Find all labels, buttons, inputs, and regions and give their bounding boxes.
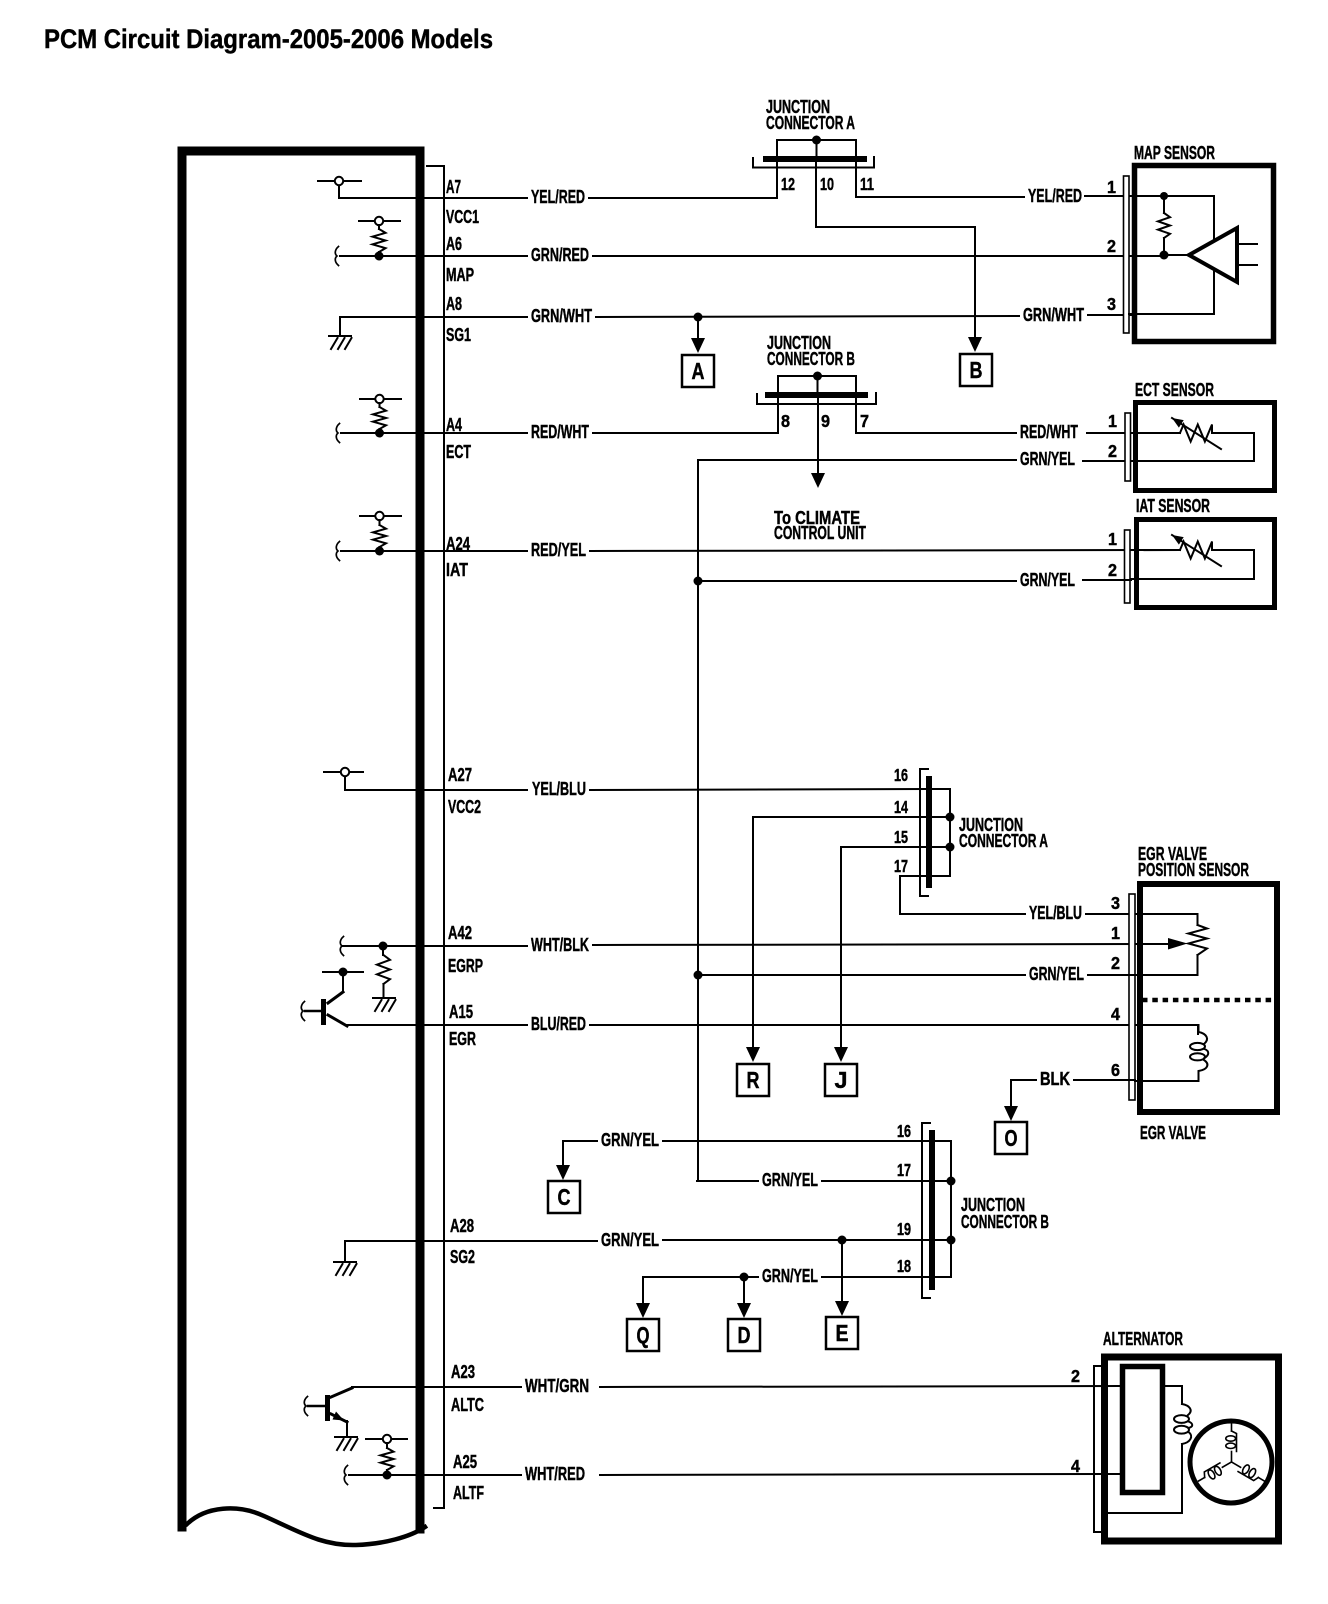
connector box E	[826, 1317, 858, 1349]
connector box B	[960, 354, 992, 386]
svg-text:6: 6	[1111, 1060, 1120, 1080]
wire A6 GRN/RED left segment	[340, 255, 527, 257]
MAP sensor internal node wire to amplifier	[1164, 254, 1189, 256]
svg-text:4: 4	[1071, 1456, 1080, 1476]
alternator stator circle	[1190, 1421, 1272, 1503]
pin 11 stub	[855, 162, 857, 197]
GRN/YEL vertical bus wire	[697, 460, 699, 1181]
junction dot on A4 wire	[375, 429, 384, 438]
bus junction dot pin 19 (bottom B)	[947, 1236, 956, 1245]
svg-text:GRN/YEL: GRN/YEL	[601, 1230, 659, 1250]
alternator voltage regulator box	[1123, 1367, 1163, 1493]
break mark at A4 wire start	[336, 424, 339, 443]
PCM torn bottom wavy edge	[187, 1508, 425, 1545]
wire A8 GRN/WHT left segment	[340, 316, 527, 318]
svg-text:CONTROL UNIT: CONTROL UNIT	[774, 523, 866, 543]
break mark at A25 wire start	[344, 1466, 347, 1485]
wire A42 WHT/BLK to EGR valve position sensor pin 1	[593, 944, 1170, 945]
svg-text:MAP: MAP	[446, 265, 474, 285]
wire E arrow vertical	[841, 1240, 843, 1301]
svg-text:MAP SENSOR: MAP SENSOR	[1134, 143, 1215, 163]
svg-text:A28: A28	[450, 1216, 474, 1236]
svg-text:3: 3	[1111, 893, 1120, 913]
svg-text:7: 7	[860, 411, 869, 431]
ECT sensor thermistor element	[1131, 432, 1180, 434]
ground symbol at A8 (sensor ground 1)	[339, 317, 341, 334]
junction connector B top loop wire	[778, 376, 856, 393]
wire A6 GRN/RED to MAP sensor pin 2	[593, 255, 1164, 257]
svg-text:CONNECTOR B: CONNECTOR B	[961, 1212, 1049, 1232]
wire A42 WHT/BLK left segment	[343, 945, 527, 947]
svg-text:GRN/YEL: GRN/YEL	[601, 1130, 659, 1150]
EGR position sensor potentiometer	[1188, 925, 1207, 955]
svg-text:EGR VALVE: EGR VALVE	[1140, 1123, 1206, 1143]
svg-text:E: E	[836, 1320, 849, 1346]
junction dot on A25 wire	[383, 1471, 392, 1480]
svg-text:R: R	[747, 1067, 760, 1093]
junction dot on A42 wire	[379, 942, 388, 951]
svg-text:2: 2	[1108, 441, 1117, 461]
svg-text:RED/YEL: RED/YEL	[531, 540, 586, 560]
wire GRN/YEL bus to EGR sensor pin 2	[698, 974, 1025, 976]
wire GRN/YEL ECT sensor pin 2 to bus	[698, 459, 1016, 461]
ground symbol at Q2 emitter	[335, 1436, 357, 1438]
junction connector A bar	[763, 156, 867, 162]
wire pin 17 to EGR valve position sensor pin 3 (YEL/BLU)	[900, 876, 1025, 914]
svg-text:Q: Q	[637, 1322, 650, 1348]
wire GRN/YEL bus corner to pin 17	[697, 1180, 758, 1182]
MAP sensor box	[1135, 166, 1274, 342]
wire A4 RED/WHT left segment	[341, 432, 527, 434]
svg-text:CONNECTOR A: CONNECTOR A	[766, 113, 855, 133]
junction dot on A6 wire	[375, 252, 384, 261]
svg-text:4: 4	[1111, 1004, 1120, 1024]
svg-text:17: 17	[894, 856, 908, 876]
pin 7 stub	[855, 398, 857, 433]
connector box Q	[627, 1319, 659, 1351]
pull-up resistor at A4 inside PCM	[360, 398, 374, 400]
wire YEL/RED junction A pin 11 to MAP sensor pin 1	[856, 196, 1024, 198]
wire A23 WHT/GRN left segment	[352, 1386, 521, 1388]
junction connector B bar	[765, 392, 868, 398]
transistor Q1 driver for EGR valve inside PCM	[323, 971, 363, 973]
right-side bus of junction connector A middle	[932, 789, 950, 876]
svg-text:ALTC: ALTC	[451, 1395, 484, 1415]
wire BLK from EGR pin 6 to arrow O	[1074, 1079, 1135, 1081]
svg-text:VCC1: VCC1	[446, 207, 479, 227]
terminal symbol at A7 (VCC1 supply)	[318, 180, 334, 182]
svg-text:A6: A6	[446, 234, 462, 254]
junction connector A (middle) housing outline	[920, 769, 928, 896]
wire pin 15 to arrow J	[841, 847, 927, 1046]
svg-text:16: 16	[897, 1121, 911, 1141]
svg-text:D: D	[738, 1322, 751, 1348]
pull-up resistor at A25 inside PCM	[366, 1438, 382, 1440]
svg-text:RED/WHT: RED/WHT	[531, 422, 589, 442]
MAP sensor pin bracket	[1124, 176, 1130, 333]
junction dot on connector A loop	[812, 136, 821, 145]
svg-text:VCC2: VCC2	[448, 797, 481, 817]
svg-text:1: 1	[1107, 177, 1116, 197]
transistor Q2 alternator control inside PCM	[331, 1388, 352, 1397]
alternator stator Y-winding top phase	[1226, 1424, 1237, 1462]
svg-text:16: 16	[894, 765, 908, 785]
svg-text:1: 1	[1111, 923, 1120, 943]
svg-text:YEL/BLU: YEL/BLU	[532, 779, 586, 799]
svg-text:12: 12	[781, 174, 795, 194]
svg-text:GRN/YEL: GRN/YEL	[1020, 570, 1075, 590]
svg-text:J: J	[835, 1067, 848, 1093]
svg-text:10: 10	[820, 174, 834, 194]
pin 12 stub	[776, 162, 778, 198]
IAT sensor box	[1137, 520, 1275, 608]
pull-down resistor at A42 inside PCM	[382, 950, 384, 955]
wire GRN/WHT to MAP sensor pin 3	[1088, 314, 1133, 316]
svg-text:GRN/YEL: GRN/YEL	[1020, 449, 1075, 469]
pull-up resistor at A6 inside PCM	[359, 220, 374, 222]
svg-text:SG2: SG2	[450, 1247, 475, 1267]
ECT sensor box	[1136, 403, 1275, 491]
wire A25 WHT/RED to alternator pin 4	[600, 1474, 1107, 1475]
EGR internal dashed separator	[1142, 998, 1274, 1003]
MAP sensor amplifier output stubs	[1237, 243, 1257, 245]
ground symbol below A42 resistor	[373, 997, 395, 999]
MAP sensor internal top junction dot	[1160, 192, 1168, 200]
bus junction dot pin 15	[946, 843, 955, 852]
svg-text:WHT/GRN: WHT/GRN	[525, 1376, 589, 1396]
junction dot to connector A arrow	[694, 313, 703, 322]
svg-text:A: A	[692, 358, 705, 384]
svg-text:GRN/YEL: GRN/YEL	[762, 1170, 818, 1190]
wire EGR solenoid to pin 6	[1135, 1080, 1198, 1082]
pin 10 stub and wire to arrow B	[816, 162, 975, 338]
MAP sensor internal feedback loop wire	[1129, 196, 1214, 314]
wire A24 RED/YEL to IAT sensor pin 1	[590, 550, 1180, 551]
wire GRN/YEL row to pin 16 with arrow C	[563, 1140, 597, 1142]
svg-text:A27: A27	[448, 765, 472, 785]
wire GRN/YEL row 18 with arrows Q and D	[642, 1277, 644, 1302]
svg-text:YEL/BLU: YEL/BLU	[1029, 903, 1082, 923]
break mark at A42 wire start	[340, 937, 343, 956]
pull-up resistor at A24 inside PCM	[360, 515, 374, 517]
svg-text:11: 11	[860, 174, 874, 194]
svg-text:3: 3	[1107, 294, 1116, 314]
wire A15 BLU/RED to EGR valve position sensor pin 4	[590, 1025, 1198, 1034]
PCM connector bracket line	[427, 166, 444, 1508]
wire A24 RED/YEL left segment	[341, 550, 527, 552]
svg-text:ECT SENSOR: ECT SENSOR	[1135, 380, 1214, 400]
arrow to connector B	[968, 337, 982, 352]
junction dot bus to EGR pin 2 wire	[694, 971, 703, 980]
alternator stator Y-winding lower-right phase	[1196, 1458, 1234, 1486]
ECT sensor pin bracket	[1125, 413, 1131, 481]
junction connector A (middle) bar	[926, 776, 932, 888]
MAP sensor internal lower junction dot	[1160, 251, 1169, 260]
svg-text:ECT: ECT	[446, 442, 471, 462]
svg-text:BLU/RED: BLU/RED	[531, 1014, 586, 1034]
MAP sensor internal resistor	[1163, 200, 1165, 213]
svg-text:17: 17	[897, 1160, 911, 1180]
connector box A	[682, 355, 714, 387]
wire GRN/YEL IAT sensor pin 2 from bus	[698, 580, 1016, 582]
junction dot on connector B loop	[813, 372, 822, 381]
svg-text:A15: A15	[449, 1002, 473, 1022]
svg-text:EGR: EGR	[449, 1029, 476, 1049]
svg-text:15: 15	[894, 827, 908, 847]
pin 8 stub	[777, 398, 779, 433]
bus junction dot pin 17 (bottom B)	[947, 1177, 956, 1186]
wire A8 GRN/WHT mid segment	[596, 316, 1019, 317]
terminal symbol at A27 (VCC2 supply)	[324, 771, 340, 773]
alternator internal wire regulator to field coil	[1165, 1386, 1182, 1404]
right-side bus of junction connector B bottom	[935, 1141, 951, 1277]
svg-text:9: 9	[821, 411, 830, 431]
wire A15 BLU/RED left segment	[345, 1024, 527, 1026]
connector box D	[728, 1319, 760, 1351]
junction connector A top loop wire	[777, 140, 856, 157]
EGR sensor pin bracket	[1129, 894, 1135, 1100]
junction dot to arrow E	[838, 1236, 847, 1245]
svg-text:1: 1	[1108, 411, 1117, 431]
svg-text:WHT/RED: WHT/RED	[525, 1464, 585, 1484]
svg-text:POSITION SENSOR: POSITION SENSOR	[1138, 860, 1249, 880]
svg-text:ALTF: ALTF	[453, 1483, 484, 1503]
svg-text:IAT SENSOR: IAT SENSOR	[1136, 496, 1210, 516]
svg-text:EGRP: EGRP	[448, 956, 483, 976]
svg-text:A25: A25	[453, 1452, 477, 1472]
connector box R	[737, 1064, 769, 1096]
svg-text:C: C	[558, 1184, 571, 1210]
wire A7 YEL/RED left segment	[420, 197, 527, 199]
svg-text:YEL/RED: YEL/RED	[1028, 186, 1082, 206]
svg-text:WHT/BLK: WHT/BLK	[531, 935, 589, 955]
wire A27 YEL/BLU to junction connector A pin 16	[590, 789, 927, 790]
IAT sensor thermistor element	[1131, 549, 1180, 551]
wire A7 YEL/RED to junction connector A pin 12	[589, 197, 777, 199]
svg-text:PCM Circuit Diagram-2005-2006: PCM Circuit Diagram-2005-2006 Models	[44, 24, 493, 54]
svg-text:RED/WHT: RED/WHT	[1020, 422, 1078, 442]
svg-text:GRN/YEL: GRN/YEL	[1029, 964, 1084, 984]
EGR valve position sensor box	[1140, 884, 1277, 1112]
MAP sensor amplifier triangle	[1189, 228, 1237, 282]
IAT sensor pin bracket	[1125, 530, 1131, 603]
wire A23 WHT/GRN to alternator pin 2	[600, 1386, 1120, 1387]
svg-text:2: 2	[1111, 953, 1120, 973]
wire A28 GRN/YEL to junction connector B pin 19	[663, 1239, 929, 1241]
alternator internal wire pin 4 loop to field coil	[1107, 1473, 1120, 1475]
svg-text:GRN/YEL: GRN/YEL	[762, 1266, 818, 1286]
EGR wiper arrow (pin 1)	[1168, 938, 1188, 950]
wire pin 14 to arrow R	[753, 817, 927, 1046]
alternator field coil	[1182, 1404, 1191, 1415]
wire RED/WHT junction B pin 7 to ECT sensor pin 1	[856, 432, 1016, 434]
svg-text:CONNECTOR A: CONNECTOR A	[959, 831, 1048, 851]
svg-text:YEL/RED: YEL/RED	[531, 187, 585, 207]
wire A4 RED/WHT to junction connector B pin 8	[593, 432, 778, 434]
alternator box	[1105, 1357, 1279, 1541]
svg-text:2: 2	[1107, 236, 1116, 256]
junction connector B (bottom) bar	[929, 1130, 935, 1290]
wire A27 YEL/BLU left segment	[345, 789, 527, 791]
break mark at A24 wire start	[336, 542, 339, 561]
wire A25 WHT/RED left segment	[349, 1474, 521, 1476]
svg-text:A7: A7	[446, 177, 461, 197]
junction connector B (bottom) housing outline	[922, 1123, 930, 1298]
svg-text:BLK: BLK	[1040, 1069, 1070, 1089]
ground symbol at A28 (sensor ground 2)	[344, 1241, 346, 1260]
junction dot to arrow D	[740, 1273, 749, 1282]
svg-text:IAT: IAT	[446, 560, 468, 580]
arrow to connector A	[697, 317, 699, 340]
alternator pin bracket	[1094, 1366, 1101, 1532]
svg-text:18: 18	[897, 1256, 911, 1276]
junction dot on A24 wire	[375, 547, 384, 556]
junction connector B housing outline	[757, 393, 876, 404]
connector box C	[548, 1181, 580, 1213]
alternator stator Y-winding lower-left phase	[1229, 1457, 1267, 1485]
svg-text:O: O	[1005, 1125, 1018, 1151]
svg-text:GRN/RED: GRN/RED	[531, 245, 589, 265]
PCM module box (left, open-bottom with torn wavy edge)	[182, 151, 420, 1529]
svg-text:19: 19	[897, 1219, 911, 1239]
svg-text:B: B	[970, 357, 983, 383]
svg-text:2: 2	[1071, 1366, 1080, 1386]
svg-text:GRN/WHT: GRN/WHT	[531, 306, 592, 326]
svg-text:1: 1	[1108, 529, 1117, 549]
junction connector A housing outline	[753, 157, 874, 168]
break mark at A6 wire start	[335, 247, 338, 266]
wire A28 GRN/YEL left segment	[345, 1240, 597, 1242]
bus junction dot pin 14	[946, 813, 955, 822]
svg-text:GRN/WHT: GRN/WHT	[1023, 305, 1084, 325]
svg-text:A23: A23	[451, 1362, 475, 1382]
svg-text:14: 14	[894, 797, 908, 817]
connector box O	[995, 1122, 1027, 1154]
svg-text:CONNECTOR B: CONNECTOR B	[767, 349, 855, 369]
svg-text:A42: A42	[448, 923, 472, 943]
svg-text:A8: A8	[446, 294, 462, 314]
svg-text:2: 2	[1108, 560, 1117, 580]
connector box J	[825, 1064, 857, 1096]
svg-text:ALTERNATOR: ALTERNATOR	[1103, 1329, 1183, 1349]
EGR valve solenoid coil	[1199, 1025, 1208, 1044]
pin 9 stub with arrow to climate control unit	[817, 398, 819, 472]
svg-text:8: 8	[781, 411, 790, 431]
junction dot bus to IAT pin 2 wire	[694, 577, 703, 586]
svg-text:SG1: SG1	[446, 325, 471, 345]
